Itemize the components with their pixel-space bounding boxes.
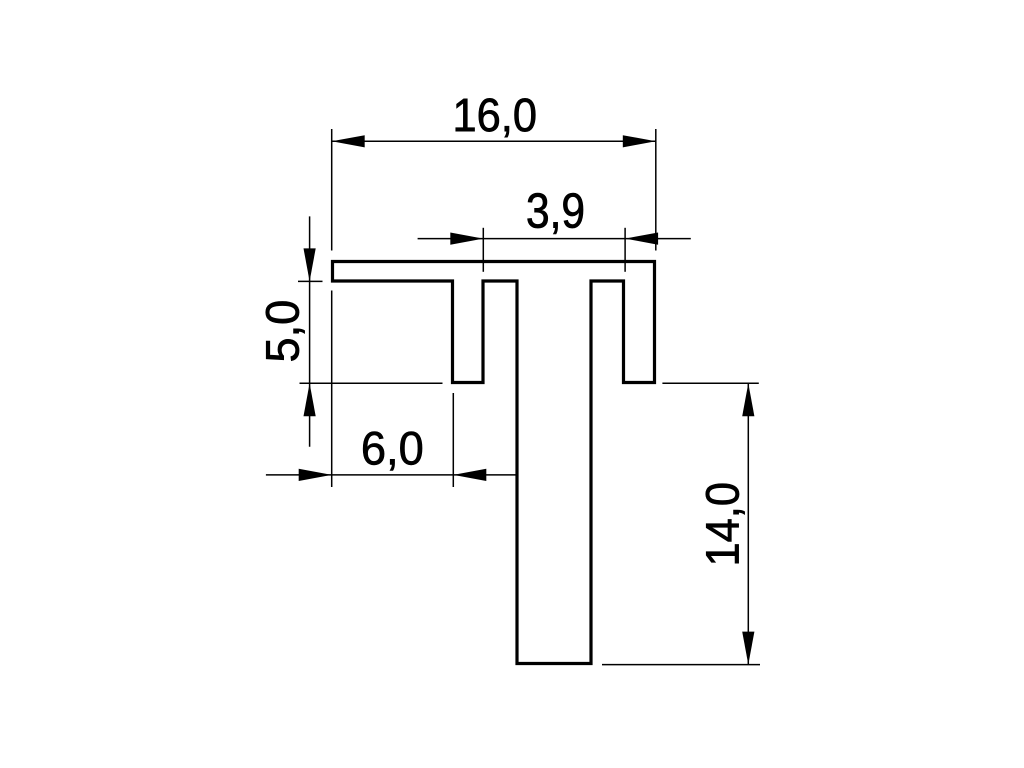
dimension 5,0 label (rotated) <box>266 302 305 361</box>
dimension 16,0 extension line left <box>331 129 333 251</box>
dimension 5,0 top arrowhead <box>304 248 316 281</box>
dimension 6,0 dimension line <box>266 474 519 476</box>
dimension 5,0 extension line bottom <box>300 382 443 384</box>
dimension 5,0 bottom arrowhead <box>304 383 316 416</box>
dimension 6,0 extension line right <box>452 393 454 487</box>
dimension 16,0 extension line right <box>655 129 657 251</box>
dimension 14,0 extension line top <box>662 382 758 384</box>
dimension 3,9 dimension line <box>418 238 691 240</box>
dimension 6,0 right arrowhead <box>453 469 486 481</box>
dimension 16,0 dimension line <box>332 140 656 142</box>
dimension 14,0 top arrowhead <box>742 383 754 416</box>
profile outline (T-extrusion cross-section) <box>333 262 655 664</box>
dimension 3,9 extension line left <box>482 228 484 272</box>
dimension 6,0 label <box>363 432 422 471</box>
dimension 3,9 extension line right <box>624 228 626 272</box>
dimension 5,0 dimension line <box>309 216 311 446</box>
dimension 3,9 label <box>528 193 583 234</box>
dimension 6,0 left arrowhead <box>299 469 332 481</box>
dimension 3,9 right arrowhead <box>625 233 658 245</box>
dimension 16,0 left arrowhead <box>332 135 365 147</box>
dimension 14,0 extension line bottom <box>602 664 760 666</box>
dimension 16,0 right arrowhead <box>623 135 656 147</box>
dimension 6,0 extension line left <box>331 291 333 488</box>
dimension 14,0 label (rotated) <box>706 484 745 564</box>
dimension 16,0 label <box>456 98 536 137</box>
dimension 14,0 dimension line <box>747 383 749 664</box>
dimension 14,0 bottom arrowhead <box>742 632 754 665</box>
dimension 3,9 left arrowhead <box>450 233 483 245</box>
dimension 5,0 extension line top <box>298 280 323 282</box>
